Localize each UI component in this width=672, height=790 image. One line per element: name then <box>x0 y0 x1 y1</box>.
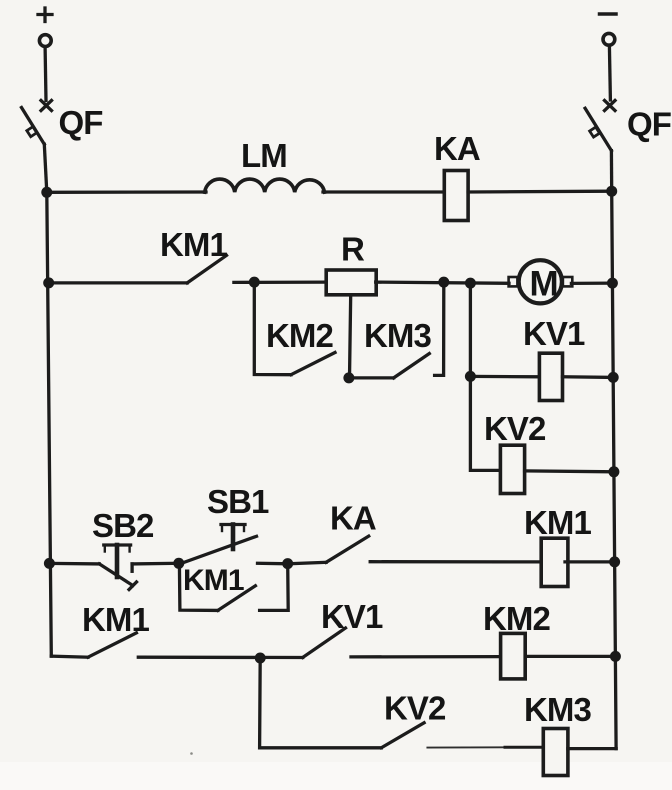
wire <box>505 746 543 749</box>
wire <box>571 281 612 285</box>
wire KM2 row left <box>51 656 88 657</box>
wire <box>376 282 509 283</box>
contact KV1 blade <box>303 628 346 658</box>
node M2 <box>343 372 354 383</box>
relay coil KM1 <box>541 538 568 586</box>
svg-text:KV2: KV2 <box>384 690 446 727</box>
svg-text:SB2: SB2 <box>92 507 154 544</box>
terminal circle left <box>39 35 51 47</box>
node P <box>173 558 184 569</box>
wire <box>288 562 326 564</box>
wire row2 left <box>49 281 188 284</box>
terminal circle right <box>603 33 615 45</box>
svg-text:KV1: KV1 <box>321 598 383 635</box>
wire <box>525 469 614 473</box>
relay coil KA <box>444 171 468 221</box>
wire KM1 aux loop <box>179 563 218 610</box>
svg-text:KM3: KM3 <box>524 691 592 728</box>
wire <box>138 656 302 660</box>
node E <box>607 278 618 289</box>
wire <box>468 190 612 194</box>
wire <box>427 746 505 748</box>
node H <box>609 556 620 567</box>
wire KM3 seat bracket <box>435 282 444 375</box>
contact KM2 blade <box>291 353 335 375</box>
svg-text:SB1: SB1 <box>207 483 269 520</box>
svg-text:KM1: KM1 <box>82 601 150 638</box>
svg-text:R: R <box>341 231 365 268</box>
wire KV1 row <box>470 375 539 379</box>
svg-text:KM1: KM1 <box>183 564 244 597</box>
pushbutton SB2 seat stub <box>130 564 133 571</box>
wire <box>43 47 47 100</box>
svg-text:LM: LM <box>241 137 287 174</box>
pushbutton SB1 actuator <box>221 525 245 550</box>
wire R tap drop <box>350 295 351 378</box>
breaker QF right blade <box>585 108 611 150</box>
motor M <box>509 260 573 303</box>
pushbutton SB1 blade <box>179 536 256 564</box>
wire <box>323 190 444 193</box>
wire <box>234 280 327 284</box>
right rail wire <box>612 191 616 748</box>
svg-text:KV1: KV1 <box>523 315 585 352</box>
node L <box>465 278 476 289</box>
wire KM3 row drop <box>260 658 382 748</box>
wire <box>610 151 614 192</box>
plus terminal symbol <box>38 8 52 22</box>
svg-text:KA: KA <box>434 130 480 167</box>
wire KM1 aux right leg <box>260 564 289 611</box>
relay coil KV2 <box>500 445 524 493</box>
svg-text:KM3: KM3 <box>364 317 432 354</box>
svg-text:KM1: KM1 <box>524 504 592 541</box>
wire row1 left <box>47 190 206 194</box>
contact KM1 blade (row KM2) <box>88 633 136 657</box>
inductor LM <box>205 179 325 192</box>
contact KM1 blade (row2) <box>187 255 226 283</box>
node F <box>608 372 619 383</box>
wire <box>563 375 614 379</box>
pushbutton SB2 blade <box>99 564 136 590</box>
wire <box>565 560 615 563</box>
breaker contact cross right <box>605 101 616 111</box>
wire <box>44 144 47 192</box>
relay coil KM3 <box>543 729 568 776</box>
svg-text:KA: KA <box>330 500 376 537</box>
contact KM3 blade <box>349 354 429 378</box>
contact KV2 blade <box>381 723 424 748</box>
speck <box>190 752 193 755</box>
breaker contact cross left <box>41 101 52 111</box>
node G <box>608 466 619 477</box>
svg-text:KM2: KM2 <box>483 600 551 637</box>
contact KA blade <box>326 536 369 562</box>
wire <box>132 562 179 566</box>
node S <box>255 653 266 664</box>
node C <box>44 558 55 569</box>
minus terminal symbol <box>600 12 617 16</box>
svg-text:QF: QF <box>59 104 103 141</box>
wire <box>568 747 616 750</box>
svg-text:KM1: KM1 <box>160 226 228 263</box>
relay coil KV1 <box>539 353 562 400</box>
resistor R <box>326 270 376 295</box>
wire KV2 branch drop <box>470 376 500 470</box>
breaker QF left latch square <box>27 127 37 137</box>
wire <box>258 562 289 566</box>
svg-text:M: M <box>530 265 558 304</box>
pushbutton SB2 actuator <box>104 545 131 577</box>
contact KM1 aux blade <box>218 586 256 611</box>
node K <box>438 277 449 288</box>
relay coil KM2 <box>501 633 526 679</box>
wire KM2 branch drop <box>254 282 291 375</box>
node B <box>43 277 54 288</box>
node D <box>606 186 617 197</box>
node I <box>610 651 621 662</box>
node J <box>249 277 260 288</box>
wire <box>351 655 501 659</box>
left rail wire <box>47 192 52 656</box>
wire bottom row left <box>49 562 99 566</box>
node N <box>465 371 476 382</box>
wire <box>370 560 541 564</box>
node Q <box>282 558 293 569</box>
svg-text:KV2: KV2 <box>484 410 546 447</box>
breaker QF right latch square <box>590 127 600 137</box>
breaker QF left blade <box>22 108 45 145</box>
wire KV1 branch drop <box>469 283 472 376</box>
wire <box>525 655 615 658</box>
wire <box>609 46 610 100</box>
node A <box>41 187 52 198</box>
svg-text:KM2: KM2 <box>266 317 334 354</box>
svg-text:QF: QF <box>627 106 671 143</box>
